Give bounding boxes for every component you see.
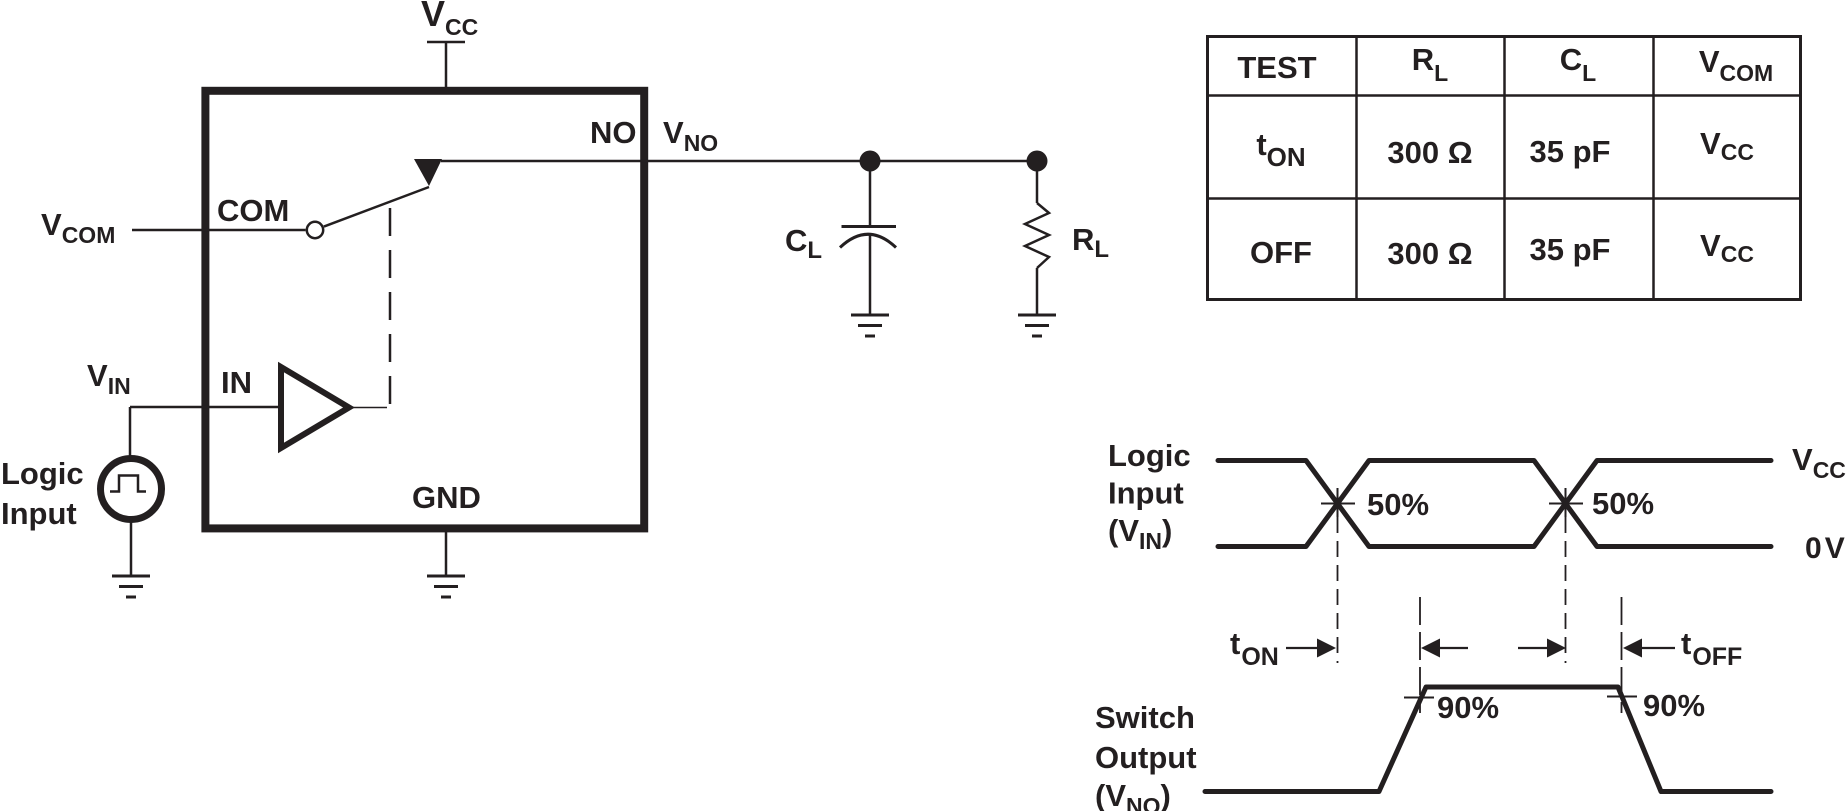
svg-text:VIN: VIN xyxy=(87,358,131,399)
svg-text:VNO: VNO xyxy=(663,115,718,156)
svg-text:0V: 0V xyxy=(1805,532,1845,565)
svg-text:Input: Input xyxy=(1,496,77,531)
svg-text:50%: 50% xyxy=(1592,486,1654,521)
svg-text:tON: tON xyxy=(1230,626,1279,671)
svg-text:COM: COM xyxy=(217,193,289,228)
svg-text:300 Ω: 300 Ω xyxy=(1387,236,1472,271)
svg-text:Logic: Logic xyxy=(1,456,84,491)
svg-text:VCC: VCC xyxy=(1700,126,1754,165)
svg-text:90%: 90% xyxy=(1643,688,1705,723)
svg-text:CL: CL xyxy=(1560,42,1596,86)
svg-text:IN: IN xyxy=(221,365,252,400)
svg-text:35 pF: 35 pF xyxy=(1530,134,1611,169)
svg-text:tOFF: tOFF xyxy=(1681,626,1742,671)
svg-text:(VIN): (VIN) xyxy=(1108,513,1172,554)
svg-text:VCC: VCC xyxy=(1700,228,1754,267)
svg-text:Input: Input xyxy=(1108,476,1184,511)
svg-text:VCOM: VCOM xyxy=(1699,44,1773,86)
svg-text:CL: CL xyxy=(785,223,822,264)
svg-text:OFF: OFF xyxy=(1250,235,1312,270)
svg-text:VCOM: VCOM xyxy=(41,207,115,248)
svg-text:90%: 90% xyxy=(1437,690,1499,725)
svg-text:(VNO): (VNO) xyxy=(1095,778,1171,811)
svg-text:35 pF: 35 pF xyxy=(1530,232,1611,267)
svg-text:NO: NO xyxy=(590,115,637,150)
svg-text:VCC: VCC xyxy=(1792,442,1846,483)
svg-text:VCC: VCC xyxy=(421,0,478,40)
svg-text:Switch: Switch xyxy=(1095,700,1195,735)
svg-text:300 Ω: 300 Ω xyxy=(1387,135,1472,170)
svg-text:TEST: TEST xyxy=(1237,50,1316,85)
svg-text:tON: tON xyxy=(1256,127,1305,172)
svg-text:RL: RL xyxy=(1072,222,1109,263)
svg-text:Logic: Logic xyxy=(1108,438,1191,473)
svg-text:Output: Output xyxy=(1095,740,1197,775)
svg-text:50%: 50% xyxy=(1367,487,1429,522)
svg-text:GND: GND xyxy=(412,480,481,515)
svg-text:RL: RL xyxy=(1412,42,1448,86)
